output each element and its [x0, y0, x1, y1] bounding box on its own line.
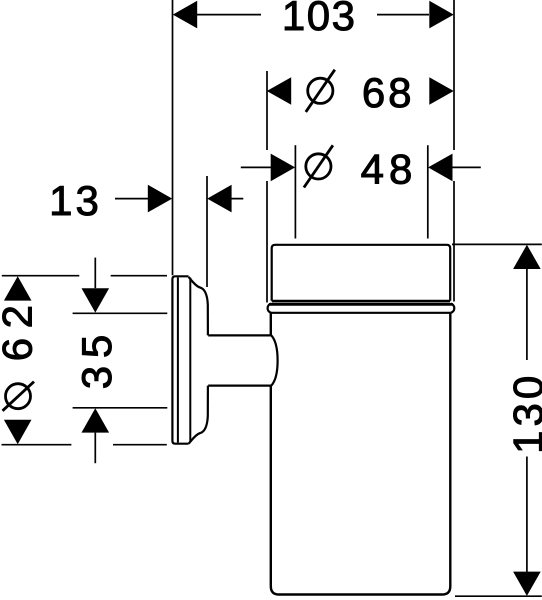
dim 130 boundary line bottom [455, 595, 542, 597]
holder ring lip left bulge [268, 304, 271, 313]
dim 35 down arrow [82, 288, 110, 312]
dim 13 right arrow [207, 185, 231, 213]
dim 130 boundary line top [452, 243, 542, 245]
dim 13 left arrow [148, 185, 172, 213]
Ø62 boundary line bottom [2, 444, 167, 446]
dim 130 line segments [526, 269, 528, 573]
dim 103 right arrow [429, 1, 453, 29]
extension line Ø68 left [266, 71, 268, 303]
svg-text:35: 35 [73, 327, 120, 389]
dim 130 down arrow [513, 572, 541, 596]
dim 35 line bottom segment [94, 433, 96, 464]
extension line wall (left of 103 / 13) [172, 0, 174, 275]
dim Ø68 right arrow [429, 77, 453, 105]
svg-text:48: 48 [361, 146, 418, 193]
dim Ø48 left arrow [271, 154, 295, 182]
Ø62 boundary line top [2, 275, 167, 277]
svg-text:68: 68 [362, 69, 415, 116]
holder ring band top edge [272, 300, 451, 303]
glass rim [272, 245, 451, 301]
dim 35 up arrow [82, 408, 110, 432]
svg-text:130: 130 [504, 372, 542, 454]
wall plate inner line B [177, 277, 179, 442]
wall plate inner line C [189, 278, 191, 442]
holder ring band lip top edge [269, 303, 453, 306]
dim 103 left arrow [173, 1, 197, 29]
dim 35 boundary line bottom [73, 407, 168, 409]
dim Ø68 left arrow [267, 77, 291, 105]
extension line Ø48 right [427, 145, 429, 238]
dim 13 leader lines [115, 198, 243, 200]
dim 35 boundary line top [73, 312, 168, 314]
bracket arm top edge [208, 334, 271, 336]
svg-text:103: 103 [282, 0, 357, 39]
dim Ø62 down arrow [4, 420, 32, 444]
wall plate back disc [172, 276, 188, 443]
holder ring lip bottom edge [271, 312, 451, 314]
dim Ø62 diameter symbol [3, 382, 35, 411]
dim 35 line top segment [94, 258, 96, 289]
extension line right (103 / Ø68) [453, 0, 455, 302]
glass body [271, 313, 451, 595]
extension line 13 right [206, 176, 208, 287]
dim 103 line [197, 14, 429, 16]
bracket arm bottom edge [208, 385, 271, 387]
dim Ø68 diameter symbol [306, 70, 335, 112]
wall plate dome outline [189, 277, 208, 444]
svg-text:13: 13 [49, 177, 102, 224]
dim Ø48 diameter symbol [304, 145, 333, 187]
svg-text:62: 62 [0, 296, 40, 362]
dim Ø48 right arrow [428, 154, 452, 182]
holder ring lip right bulge [451, 304, 454, 313]
dim Ø62 up arrow [4, 276, 32, 300]
bracket arm end bulge [271, 335, 277, 385]
dim 130 up arrow [513, 245, 541, 269]
dim Ø48 leader lines [241, 166, 481, 168]
extension line Ø48 left [294, 145, 296, 238]
